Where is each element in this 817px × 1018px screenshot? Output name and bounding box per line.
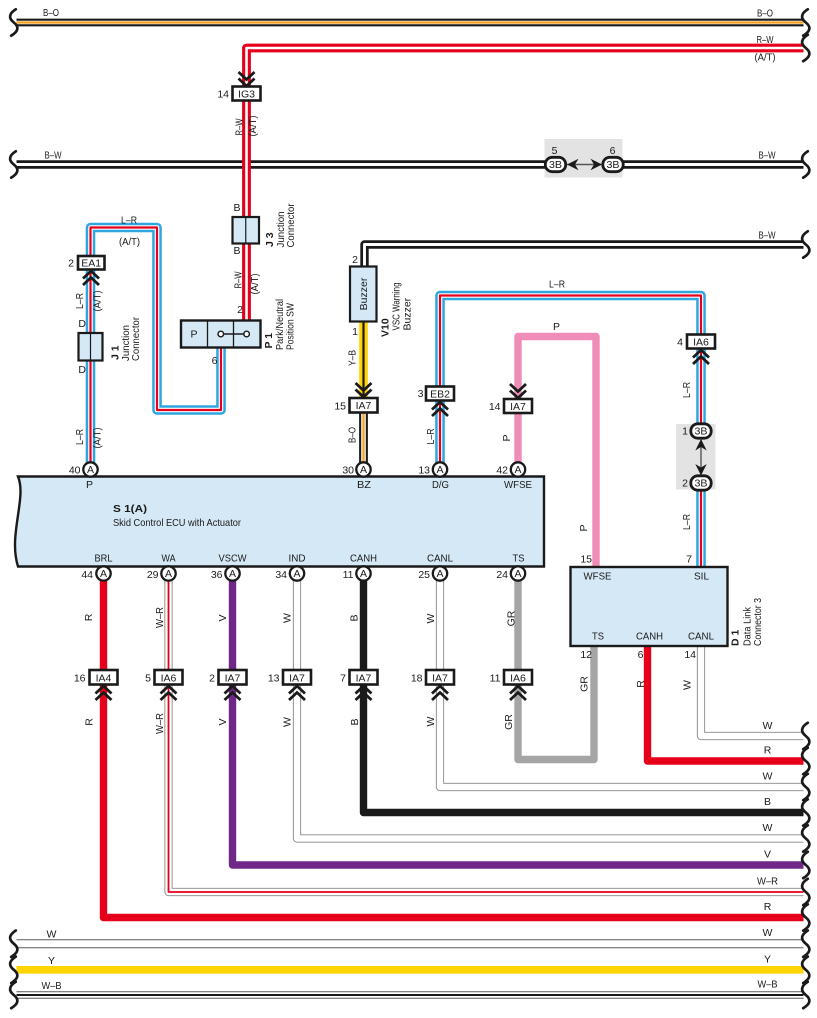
svg-text:D: D [78, 318, 86, 330]
svg-text:WFSE: WFSE [504, 479, 532, 491]
svg-text:2: 2 [68, 258, 74, 270]
svg-text:7: 7 [686, 554, 692, 566]
chevron above IA7 pin15 [356, 383, 372, 397]
svg-text:A: A [360, 464, 367, 476]
shield arrows between 3B 5 and 6 [567, 159, 602, 171]
svg-text:IA7: IA7 [510, 401, 526, 413]
svg-text:B–O: B–O [347, 427, 359, 443]
svg-text:16: 16 [74, 673, 86, 685]
junction connector J3 box [233, 217, 260, 244]
svg-text:A: A [514, 568, 521, 580]
svg-text:IA6: IA6 [510, 673, 526, 685]
svg-text:R: R [764, 901, 772, 913]
svg-text:5: 5 [552, 145, 558, 157]
svg-text:W: W [763, 927, 773, 939]
shield box 3B top [545, 139, 623, 178]
svg-text:R–W: R–W [233, 271, 245, 288]
park/neutral position switch P1 box [181, 321, 261, 348]
brace right R from D1 CANH [802, 748, 809, 774]
ECU S1(A) box with torn left edge [15, 477, 544, 567]
brace right W-R from pin29 [802, 879, 809, 905]
svg-text:36: 36 [211, 569, 223, 581]
svg-text:SIL: SIL [694, 571, 709, 583]
svg-text:IA7: IA7 [289, 673, 305, 685]
svg-text:P: P [501, 434, 513, 441]
svg-text:P: P [578, 524, 590, 531]
svg-text:5: 5 [145, 673, 151, 685]
connector IA7 pin15 box [350, 398, 378, 413]
svg-text:2: 2 [237, 304, 243, 316]
svg-text:V: V [217, 614, 229, 621]
svg-text:(A/T): (A/T) [249, 274, 261, 295]
svg-text:B–W: B–W [45, 150, 62, 162]
svg-text:GR: GR [506, 610, 518, 626]
svg-text:Skid Control ECU with Actuator: Skid Control ECU with Actuator [113, 517, 241, 529]
svg-text:7: 7 [340, 673, 346, 685]
shield connector 3B pin5 oval [545, 157, 565, 171]
wire L-R EA1 to J1 to ECU pin40 [86, 270, 96, 463]
svg-text:(A/T): (A/T) [119, 236, 140, 248]
svg-text:30: 30 [342, 465, 354, 477]
brace right R from pin44 [802, 904, 809, 930]
terminal A pin29 [161, 566, 175, 580]
brace left W bus [10, 931, 17, 957]
connector IA7 pin18 box [426, 670, 454, 685]
svg-text:2: 2 [209, 673, 215, 685]
svg-text:IA6: IA6 [693, 337, 709, 349]
svg-text:L–R: L–R [425, 428, 437, 444]
svg-text:Connector: Connector [285, 203, 297, 247]
svg-text:IA4: IA4 [96, 673, 112, 685]
svg-text:B: B [349, 614, 361, 621]
connector IA6 pin4 box [687, 335, 715, 349]
svg-text:13: 13 [418, 465, 430, 477]
wire R-W from bus to IG3,J3,P1 [247, 48, 804, 321]
svg-text:Buzzer: Buzzer [358, 277, 370, 310]
svg-text:6: 6 [212, 355, 218, 367]
shield connector 3B pin6 oval [603, 157, 623, 171]
svg-text:W: W [425, 613, 437, 623]
chevron below IA6 pin4 [693, 350, 709, 364]
svg-text:CANL: CANL [427, 553, 453, 565]
svg-text:B: B [233, 245, 240, 257]
svg-text:18: 18 [411, 673, 423, 685]
wire R D1 CANH [648, 646, 804, 761]
connector EB2 box [426, 387, 454, 401]
svg-text:W: W [47, 929, 57, 941]
chevron below IA7 pin7 [356, 686, 372, 700]
svg-text:A: A [100, 568, 107, 580]
terminal A pin40 [83, 462, 97, 476]
svg-text:W: W [763, 822, 773, 834]
terminal A pin44 [96, 566, 110, 580]
svg-text:2: 2 [352, 254, 358, 266]
svg-text:R–W: R–W [757, 34, 774, 46]
svg-text:IA7: IA7 [225, 673, 241, 685]
chevron below IA6 pin5 [161, 686, 177, 700]
svg-text:D/G: D/G [432, 479, 449, 491]
svg-text:BZ: BZ [357, 479, 372, 491]
svg-text:L–R: L–R [549, 279, 565, 291]
wire Y-B buzzer to IA7 [359, 322, 368, 399]
bus W bottom [17, 939, 804, 948]
svg-text:CANL: CANL [688, 631, 714, 643]
svg-text:11: 11 [490, 673, 501, 685]
svg-text:GR: GR [579, 676, 591, 692]
svg-text:IA7: IA7 [356, 400, 372, 412]
brace left B-W [10, 151, 17, 177]
brace right W-B bus [802, 982, 809, 1008]
svg-text:R–W: R–W [234, 118, 246, 135]
svg-text:15: 15 [334, 401, 346, 413]
svg-text:R: R [635, 680, 647, 688]
chevron above IA7 pin14 [510, 384, 526, 398]
svg-text:Position SW: Position SW [285, 303, 297, 350]
svg-text:WA: WA [162, 553, 176, 565]
chevron below EA1 [83, 271, 99, 285]
brace left W-B bus [10, 982, 17, 1008]
connector IA6 pin5 box [155, 670, 183, 685]
svg-text:W–R: W–R [757, 876, 778, 888]
wire GR ECU pin24 TS to D1 TS [518, 581, 594, 760]
brace right R-W [802, 35, 809, 61]
svg-text:CANH: CANH [350, 553, 377, 565]
brace left Y bus [10, 957, 17, 983]
svg-text:A: A [436, 568, 443, 580]
svg-text:TS: TS [592, 631, 604, 643]
svg-text:14: 14 [217, 89, 229, 101]
svg-text:Y: Y [764, 953, 771, 965]
svg-text:L–R: L–R [74, 293, 86, 309]
svg-text:EA1: EA1 [81, 257, 101, 269]
wire R ECU pin44 BRL [104, 581, 804, 918]
svg-text:4: 4 [677, 337, 683, 349]
chevron below IA7 pin13 [289, 686, 305, 700]
brace right V from pin36 [802, 852, 809, 878]
svg-text:42: 42 [496, 465, 508, 477]
svg-text:40: 40 [69, 465, 81, 477]
svg-text:L–R: L–R [74, 429, 86, 445]
connector IA7 pin14 box [504, 399, 532, 413]
brace right B-O [802, 9, 809, 35]
svg-text:P: P [190, 329, 197, 341]
svg-text:W: W [282, 613, 294, 623]
wire P pink ECU pin42 to D1 WFSE [518, 337, 596, 568]
wire W ECU pin34 IND [297, 581, 804, 839]
svg-text:6: 6 [638, 649, 644, 661]
svg-text:29: 29 [147, 569, 159, 581]
svg-text:B: B [233, 202, 240, 214]
svg-text:(A/T): (A/T) [755, 52, 776, 64]
svg-text:44: 44 [81, 569, 93, 581]
svg-text:EB2: EB2 [430, 388, 450, 400]
svg-text:W: W [425, 716, 437, 726]
junction connector J1 box [79, 333, 103, 361]
buzzer V10 box [350, 267, 377, 322]
connector IA6 pin11 box [504, 670, 532, 685]
svg-text:L–R: L–R [681, 382, 693, 398]
terminal A pin13 [433, 462, 447, 476]
wire V ECU pin36 VSCW [233, 581, 804, 866]
svg-text:(A/T): (A/T) [92, 428, 104, 449]
terminal A pin11 [356, 566, 370, 580]
svg-text:W: W [763, 720, 773, 732]
svg-text:W: W [763, 771, 773, 783]
svg-text:B–O: B–O [757, 8, 773, 20]
bus B-W upper [17, 160, 804, 168]
shield connector 3B pin2 oval [691, 476, 711, 490]
connector IA4 pin16 box [90, 670, 118, 685]
svg-text:WFSE: WFSE [584, 571, 612, 583]
svg-text:TS: TS [513, 553, 525, 565]
svg-text:A: A [360, 568, 367, 580]
bus W-B bottom [17, 991, 804, 998]
svg-text:15: 15 [580, 554, 592, 566]
svg-text:R: R [84, 718, 96, 726]
P1 switch contacts [218, 331, 249, 337]
chevron below IA7 pin18 [432, 686, 448, 700]
connector D1 box [571, 567, 728, 646]
brace right B-W upper [802, 151, 809, 177]
svg-text:W: W [682, 680, 694, 690]
brace right B-W lower [802, 231, 809, 257]
chevron below IA6 pin11 [510, 686, 526, 700]
svg-text:Buzzer: Buzzer [402, 297, 414, 330]
svg-text:R: R [83, 613, 95, 621]
svg-text:3B: 3B [695, 478, 708, 490]
connector IG3 box [233, 87, 261, 101]
wire B-W to buzzer [365, 245, 804, 267]
svg-text:IND: IND [289, 553, 306, 565]
svg-text:A: A [293, 568, 300, 580]
svg-text:A: A [436, 464, 443, 476]
svg-text:V: V [217, 718, 229, 725]
connector EA1 box [78, 256, 105, 270]
svg-text:VSCW: VSCW [219, 553, 247, 565]
svg-text:Connector: Connector [130, 317, 142, 361]
svg-text:IA7: IA7 [432, 673, 448, 685]
svg-text:24: 24 [496, 569, 508, 581]
svg-text:(A/T): (A/T) [92, 291, 104, 312]
svg-text:A: A [514, 464, 521, 476]
svg-text:3B: 3B [695, 426, 708, 438]
svg-text:BRL: BRL [95, 553, 113, 565]
svg-text:2: 2 [682, 478, 688, 490]
brace right W bus [802, 931, 809, 957]
svg-text:IG3: IG3 [238, 89, 255, 101]
svg-text:13: 13 [268, 673, 280, 685]
svg-text:Y: Y [48, 955, 55, 967]
svg-text:GR: GR [503, 714, 515, 730]
svg-text:3: 3 [418, 388, 424, 400]
svg-text:1: 1 [682, 426, 688, 438]
shield box 3B right [676, 424, 716, 490]
connector IA7 pin13 box [283, 670, 311, 685]
brace right B from pin11 [802, 799, 809, 825]
svg-text:W–B: W–B [42, 980, 62, 992]
svg-text:W–R: W–R [154, 713, 166, 734]
svg-text:B–W: B–W [759, 230, 776, 242]
wire L-R EA1 loop to P1 pin6 [91, 228, 222, 411]
svg-text:34: 34 [275, 569, 287, 581]
terminal A pin30 [356, 462, 370, 476]
wire B ECU pin11 CANH [364, 581, 804, 813]
svg-text:(A/T): (A/T) [247, 116, 259, 137]
svg-text:B–O: B–O [43, 7, 59, 19]
wire B-O IA7 to ECU pin30 [359, 413, 368, 463]
svg-text:A: A [165, 568, 172, 580]
svg-text:14: 14 [684, 649, 696, 661]
chevron below IA7 pin2 [225, 686, 241, 700]
svg-text:12: 12 [580, 649, 592, 661]
svg-text:Y–B: Y–B [347, 350, 359, 366]
svg-text:L–R: L–R [121, 215, 137, 227]
svg-text:25: 25 [418, 569, 430, 581]
terminal A pin34 [290, 566, 304, 580]
svg-text:B: B [349, 718, 361, 725]
svg-text:1: 1 [352, 326, 358, 338]
svg-text:L–R: L–R [681, 514, 693, 530]
svg-text:6: 6 [610, 145, 616, 157]
svg-text:11: 11 [343, 569, 354, 581]
bus B-O [17, 19, 804, 27]
svg-text:D 1: D 1 [730, 630, 742, 647]
svg-text:B: B [764, 796, 771, 808]
chevron above IG3 [239, 72, 255, 86]
svg-text:D: D [78, 364, 86, 376]
shield connector 3B pin1 oval [691, 424, 711, 438]
connector IA7 pin2 box [219, 670, 247, 685]
wire L-R ECU pin13 via EB2, IA6, 3B to D1 SIL [440, 296, 701, 568]
terminal A pin25 [433, 566, 447, 580]
chevron below IA4 pin16 [96, 686, 112, 700]
brace right W from pin25 [802, 774, 809, 800]
svg-text:W: W [282, 717, 294, 727]
brace right Y bus [802, 957, 809, 983]
wire W D1 CANL [701, 646, 804, 736]
wire W ECU pin25 CANL [440, 581, 804, 788]
svg-text:W–B: W–B [758, 979, 778, 991]
connector IA7 pin7 box [350, 670, 378, 685]
svg-text:IA7: IA7 [356, 673, 372, 685]
brace right W from D1 CANL [802, 723, 809, 749]
bus Y bottom [17, 966, 804, 974]
svg-text:Connector 3: Connector 3 [752, 598, 764, 646]
brace right W from pin34 [802, 825, 809, 851]
svg-text:CANH: CANH [636, 631, 663, 643]
svg-text:3B: 3B [607, 159, 620, 171]
svg-text:V: V [764, 849, 771, 861]
svg-text:A: A [229, 568, 236, 580]
terminal A pin24 [511, 566, 525, 580]
brace left B-O [10, 9, 17, 35]
svg-text:3B: 3B [549, 159, 562, 171]
svg-text:14: 14 [489, 401, 501, 413]
svg-text:B–W: B–W [759, 150, 776, 162]
svg-text:A: A [87, 464, 94, 476]
svg-text:P: P [553, 321, 560, 333]
shield arrows between 3B 1 and 2 [695, 439, 706, 476]
terminal A pin36 [225, 566, 239, 580]
svg-text:P: P [86, 479, 93, 491]
terminal A pin42 [511, 462, 525, 476]
chevron below EB2 [432, 402, 448, 416]
wire W-R ECU pin29 WA [169, 581, 804, 893]
svg-text:R: R [764, 745, 772, 757]
svg-text:S 1(A): S 1(A) [113, 503, 147, 515]
svg-text:IA6: IA6 [161, 673, 177, 685]
svg-text:W–R: W–R [154, 607, 166, 628]
